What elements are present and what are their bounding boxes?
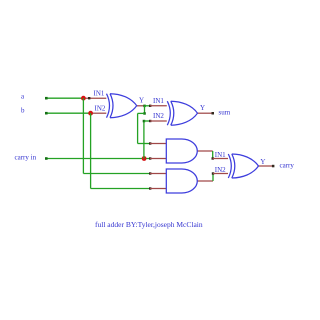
wire cin branch horizontal to XOR2 IN2 bbox=[144, 120, 150, 122]
wire b endpoint mark bbox=[45, 112, 48, 115]
red stub XOR2 IN2 bbox=[150, 120, 167, 122]
wire a red stub to XOR1 IN1 bbox=[84, 97, 106, 99]
pin mark OR IN1 bbox=[212, 157, 214, 159]
wire b horizontal bbox=[46, 112, 92, 114]
pin mark AND1 IN2 bbox=[149, 157, 151, 159]
wire carry in branch vertical up bbox=[143, 121, 145, 159]
wire b branch horizontal to AND2 IN2 bbox=[91, 188, 150, 190]
pin mark OR IN2 bbox=[212, 172, 214, 174]
svg-text:IN1: IN1 bbox=[215, 151, 226, 159]
wire Y branch left bbox=[138, 112, 145, 114]
pin mark AND2 IN2 bbox=[149, 187, 151, 189]
svg-text:IN2: IN2 bbox=[153, 112, 164, 120]
wire Y green to XOR2 IN1 bbox=[145, 105, 150, 107]
xor-gate U5 (carry out) bbox=[228, 154, 258, 178]
svg-text:Y: Y bbox=[139, 96, 144, 104]
wire a horizontal bbox=[46, 97, 85, 99]
svg-text:carry in: carry in bbox=[15, 153, 37, 161]
wire Y branch horizontal to AND1 IN1 bbox=[138, 143, 150, 145]
red stub XOR2 IN1 bbox=[150, 105, 167, 107]
red stub OR IN1 bbox=[213, 158, 228, 160]
wire Y branch down bbox=[144, 106, 146, 114]
junction mark XOR1 Y node bbox=[143, 105, 146, 108]
wire Y branch vertical down bbox=[137, 113, 139, 143]
pin mark XOR2 IN2 bbox=[149, 120, 151, 122]
wire b branch vertical bbox=[90, 113, 92, 188]
svg-text:IN2: IN2 bbox=[95, 104, 106, 112]
wire carry output bbox=[258, 165, 274, 167]
pin mark XOR2 IN1 bbox=[149, 105, 151, 107]
and-gate U4 (a and b) bbox=[166, 169, 197, 193]
wire XOR1 Y output red bbox=[137, 105, 145, 107]
wire carry in horizontal bbox=[46, 158, 150, 160]
junction dot on a bbox=[81, 96, 86, 101]
svg-text:Y: Y bbox=[200, 104, 205, 112]
wire XOR2 Y output to sum bbox=[197, 112, 213, 114]
svg-text:b: b bbox=[21, 107, 25, 115]
wire a branch horizontal to AND2 IN1 bbox=[83, 173, 149, 175]
wire AND1 out jog down green bbox=[212, 151, 214, 159]
endpoint mark sum bbox=[212, 112, 215, 115]
red stub AND1 IN2 bbox=[150, 158, 166, 160]
junction dot on b bbox=[88, 111, 93, 116]
junction dot on carry in bbox=[142, 156, 147, 161]
svg-text:Y: Y bbox=[260, 158, 265, 166]
pin mark AND1 IN1 bbox=[149, 142, 151, 144]
corner mark cin branch bbox=[143, 120, 146, 123]
xor-gate U2 (sum) bbox=[167, 101, 197, 125]
svg-text:carry: carry bbox=[280, 162, 295, 170]
svg-text:IN2: IN2 bbox=[215, 166, 226, 174]
red stub AND2 IN2 bbox=[150, 188, 166, 190]
pin mark XOR1 IN1 bbox=[88, 97, 90, 99]
xor-gate U1 (a xor b) bbox=[107, 94, 137, 118]
svg-text:sum: sum bbox=[219, 109, 231, 117]
wire carry in endpoint mark bbox=[45, 157, 48, 160]
svg-text:full adder BY:Tyler,joseph McC: full adder BY:Tyler,joseph McClain bbox=[95, 220, 203, 229]
red stub AND2 IN1 bbox=[150, 173, 166, 175]
red stub AND1 IN1 bbox=[150, 143, 166, 145]
wire a endpoint mark bbox=[45, 97, 48, 100]
wire AND1 output bbox=[197, 150, 212, 152]
svg-text:IN1: IN1 bbox=[153, 97, 164, 105]
wire AND2 out jog up green bbox=[212, 174, 214, 182]
svg-text:a: a bbox=[21, 92, 25, 100]
wire AND2 output bbox=[197, 180, 213, 182]
wire b red stub to XOR1 IN2 bbox=[91, 112, 107, 114]
corner mark Y branch bbox=[143, 112, 146, 115]
red stub OR IN2 bbox=[213, 173, 228, 175]
and-gate U3 (Y and carry-in) bbox=[166, 139, 197, 163]
pin mark AND2 IN1 bbox=[149, 172, 151, 174]
wire a branch vertical bbox=[82, 98, 84, 173]
endpoint mark carry bbox=[272, 165, 275, 168]
svg-text:IN1: IN1 bbox=[94, 89, 105, 97]
